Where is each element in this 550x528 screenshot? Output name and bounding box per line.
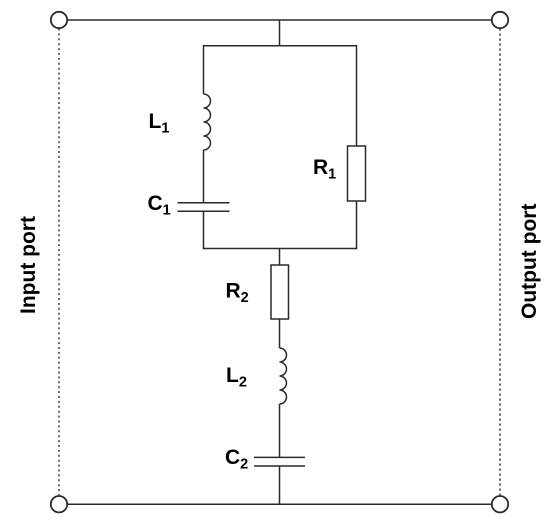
wire tank left edge upper — [203, 45, 205, 94]
wire R2 to L2 — [279, 319, 281, 348]
input port terminal bottom-left — [51, 496, 67, 512]
wire from top rail down to tank — [279, 20, 281, 46]
wire C2 to bottom rail — [279, 466, 281, 504]
wire from L1 to C1 — [203, 150, 205, 203]
wire tank to R2 — [279, 249, 281, 266]
resistor R2 — [271, 265, 289, 319]
resistor R1 — [348, 146, 366, 201]
top wire — [67, 19, 492, 21]
wire L2 to C2 — [279, 404, 281, 457]
wire tank bottom edge — [204, 248, 357, 250]
output port terminal bottom-right — [492, 496, 508, 512]
inductor L2 — [280, 348, 287, 404]
wire tank right edge lower — [356, 201, 358, 249]
bottom wire — [67, 503, 492, 505]
inductor L1 — [204, 94, 211, 150]
wire tank top edge — [204, 45, 357, 47]
capacitor C1 — [178, 203, 230, 211]
input port dashed line — [58, 29, 60, 496]
capacitor C2 — [254, 457, 305, 466]
wire tank right edge upper — [356, 45, 358, 146]
output port terminal top-right — [492, 12, 508, 28]
input port terminal top-left — [51, 12, 67, 28]
output port dashed line — [499, 29, 501, 496]
wire tank left edge lower — [203, 211, 205, 249]
svg-text:Input port: Input port — [17, 216, 40, 314]
svg-text:Output port: Output port — [518, 204, 541, 319]
